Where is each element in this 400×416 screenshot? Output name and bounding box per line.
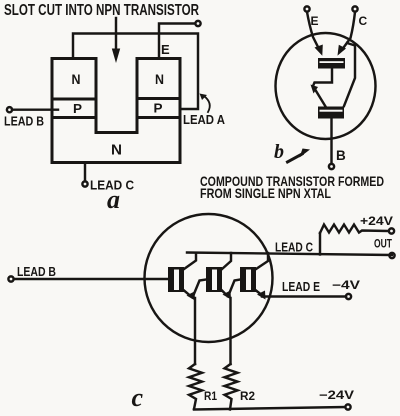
lower wafer bar (318, 107, 344, 119)
terminal lead C (82, 181, 87, 186)
C lead wire (fig b) (343, 12, 356, 49)
svg-text:+24V: +24V (360, 216, 393, 228)
+24V terminal (389, 228, 394, 233)
curved arrow pointing at lead A wire (200, 94, 210, 113)
junction line N/P right tower (137, 97, 180, 100)
junction line N/P left tower (52, 98, 96, 101)
can circle (fig b) (276, 33, 376, 139)
svg-text:LEAD E: LEAD E (282, 279, 320, 294)
svg-text:N: N (155, 71, 164, 87)
svg-text:a: a (107, 185, 120, 214)
svg-text:C: C (359, 14, 368, 28)
svg-text:R1: R1 (204, 389, 217, 403)
svg-text:SLOT CUT INTO NPN TRANSISTOR: SLOT CUT INTO NPN TRANSISTOR (4, 2, 199, 19)
svg-text:OUT: OUT (374, 237, 392, 251)
terminal lead B (7, 107, 12, 112)
B lead wire (330, 119, 332, 164)
terminal lead B (fig c) (8, 276, 13, 281)
-24V rail (194, 407, 345, 410)
R1 feed wire (194, 298, 196, 364)
wire right N top to terminal E (159, 24, 195, 59)
Q3 emitter arrowhead (257, 291, 266, 300)
R2 feed wire (229, 298, 231, 364)
transistor Q1 (168, 267, 184, 292)
svg-text:N: N (111, 142, 122, 159)
collector rail + lead C wire (187, 253, 392, 256)
svg-text:b: b (274, 141, 284, 163)
middle arrowhead (311, 85, 319, 94)
terminal lead E (346, 294, 351, 299)
resistor R2 (225, 364, 238, 410)
lead E wire (262, 295, 346, 297)
svg-text:P: P (73, 101, 82, 116)
svg-text:LEAD B: LEAD B (4, 115, 44, 129)
Q3 collector wire (256, 253, 268, 269)
svg-text:−4V: −4V (332, 278, 360, 292)
resistor R1 (189, 364, 202, 409)
svg-text:LEAD B: LEAD B (17, 264, 56, 279)
svg-text:N: N (72, 71, 81, 87)
terminal E (fig b) (304, 6, 309, 11)
upper wafer bar (318, 58, 345, 69)
svg-text:LEAD C: LEAD C (275, 240, 313, 255)
svg-text:R2: R2 (240, 389, 255, 403)
resistor R3 load: branch wire (319, 233, 321, 255)
E lead arrowhead (315, 45, 323, 56)
svg-text:−24V: −24V (319, 388, 354, 402)
terminal E (fig a) (195, 21, 200, 26)
terminal -24V (345, 404, 350, 409)
lead B wire (12, 108, 58, 110)
E lead wire (fig b) (307, 12, 319, 48)
Q2-Q3 base coupling wire (228, 280, 240, 297)
junction line P/base right tower (137, 116, 180, 119)
svg-text:LEAD A: LEAD A (183, 113, 225, 127)
junction line P/base left tower (52, 116, 96, 119)
wire left N top to lead A (73, 34, 198, 110)
collector link wire (upper bar to lower bar, right side) (344, 43, 355, 106)
Q3 emitter wire (256, 291, 261, 295)
pointer arrow b (288, 149, 311, 163)
Q1 emitter wire (184, 291, 190, 296)
Q2 collector wire (222, 253, 231, 269)
terminal B (329, 164, 334, 169)
transistor body outline (fig a) (52, 59, 180, 163)
svg-text:FROM SINGLE NPN XTAL: FROM SINGLE NPN XTAL (200, 185, 331, 201)
can circle (fig c) (145, 214, 273, 342)
svg-text:P: P (154, 101, 163, 116)
terminal C (fig b) (352, 6, 357, 11)
base link wire with emitter arrow (middle zigzag) (313, 69, 332, 107)
svg-text:c: c (132, 383, 144, 412)
Q2 emitter arrowhead (223, 291, 232, 300)
arrow into slot (112, 18, 120, 63)
Q2 emitter wire (222, 291, 226, 295)
OUT terminal (389, 253, 394, 258)
lead C wire (84, 163, 86, 182)
lead B wire (fig c) (14, 278, 168, 280)
Q1-Q2 base coupling wire (193, 280, 207, 298)
svg-text:E: E (311, 14, 319, 28)
svg-text:B: B (336, 148, 346, 163)
resistor R3 zigzag (320, 225, 388, 234)
Q1 collector wire (184, 253, 196, 269)
C lead arrowhead (338, 45, 347, 56)
svg-text:E: E (161, 42, 170, 57)
transistor Q3 (240, 267, 256, 292)
Q1 emitter arrowhead (187, 292, 196, 301)
transistor Q2 (206, 267, 222, 292)
